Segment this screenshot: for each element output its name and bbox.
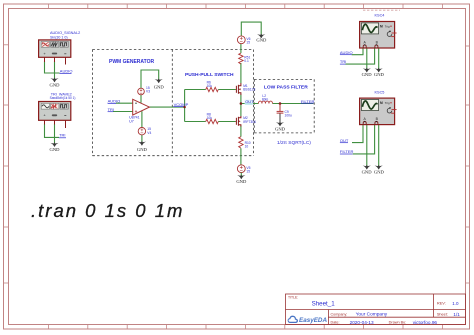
svg-text:LOW PASS FILTER: LOW PASS FILTER	[264, 84, 308, 90]
svg-text:TRI: TRI	[340, 59, 346, 64]
svg-text:15: 15	[246, 41, 250, 45]
svg-text:1.0: 1.0	[452, 301, 459, 306]
svg-text:V3: V3	[146, 89, 150, 93]
svg-text:GND: GND	[50, 82, 61, 87]
svg-text:2020-04-13: 2020-04-13	[350, 320, 374, 325]
svg-text:GND: GND	[362, 169, 373, 174]
svg-text:AUDIO: AUDIO	[340, 50, 353, 55]
svg-text:victorfoo.96: victorfoo.96	[413, 320, 438, 325]
svg-text:TRI: TRI	[108, 107, 114, 112]
svg-text:Sawtooth(1k 50 1): Sawtooth(1k 50 1)	[50, 96, 76, 100]
svg-text:GND: GND	[374, 169, 385, 174]
svg-text:OUT: OUT	[245, 99, 254, 104]
svg-text:Sin(30 1 0): Sin(30 1 0)	[50, 35, 68, 39]
svg-text:VCOMP: VCOMP	[174, 102, 189, 107]
svg-text:GND: GND	[137, 147, 148, 152]
svg-text:Your Company: Your Company	[356, 312, 388, 318]
svg-text:10k: 10k	[207, 116, 213, 120]
svg-text:GND: GND	[154, 85, 165, 90]
svg-text:GND: GND	[374, 72, 385, 77]
svg-text:10k: 10k	[207, 84, 213, 88]
svg-text:Sheet_1: Sheet_1	[312, 301, 336, 308]
svg-text:FILTER: FILTER	[340, 149, 354, 154]
svg-text:PUSH-PULL SWITCH: PUSH-PULL SWITCH	[185, 72, 234, 78]
svg-text:AUDIO: AUDIO	[60, 69, 73, 74]
svg-text:1/2π SQRT(LC): 1/2π SQRT(LC)	[277, 140, 311, 146]
svg-text:REV:: REV:	[437, 301, 446, 306]
svg-text:AUDIO: AUDIO	[108, 99, 121, 104]
svg-text:M: M	[380, 101, 383, 105]
svg-text:IRF7304: IRF7304	[243, 120, 256, 124]
svg-text:Sheet:: Sheet:	[437, 313, 448, 317]
svg-text:Trig: Trig	[385, 24, 390, 28]
svg-text:OUT: OUT	[340, 138, 349, 143]
svg-text:GND: GND	[256, 38, 267, 43]
svg-text:GND: GND	[362, 72, 373, 77]
svg-text:M: M	[380, 25, 383, 29]
svg-text:Drawn By:: Drawn By:	[389, 321, 407, 325]
svg-text:TRI: TRI	[59, 133, 65, 138]
svg-text:Trig: Trig	[385, 101, 390, 105]
svg-text:GND: GND	[236, 179, 247, 184]
svg-text:1/1: 1/1	[453, 312, 460, 317]
svg-text:KSC5: KSC5	[375, 90, 385, 94]
svg-text:BSS123: BSS123	[243, 88, 255, 92]
svg-text:PWM GENERATOR: PWM GENERATOR	[109, 59, 154, 65]
svg-text:V4: V4	[147, 131, 151, 135]
svg-text:U7: U7	[129, 119, 134, 123]
svg-text:80m: 80m	[262, 97, 269, 101]
svg-text:TITLE:: TITLE:	[288, 295, 298, 299]
svg-text:.tran 0 1s 0 1m: .tran 0 1s 0 1m	[31, 200, 184, 221]
svg-text:100u: 100u	[285, 113, 293, 117]
svg-text:Company:: Company:	[331, 312, 348, 316]
svg-text:Date:: Date:	[331, 321, 340, 325]
svg-text:10: 10	[245, 144, 249, 148]
svg-text:EasyEDA: EasyEDA	[299, 317, 327, 324]
svg-text:GND: GND	[275, 126, 286, 131]
svg-text:KSC4: KSC4	[375, 13, 385, 17]
svg-text:0.1: 0.1	[244, 59, 249, 63]
svg-text:15: 15	[246, 170, 250, 174]
svg-text:GND: GND	[50, 147, 61, 152]
